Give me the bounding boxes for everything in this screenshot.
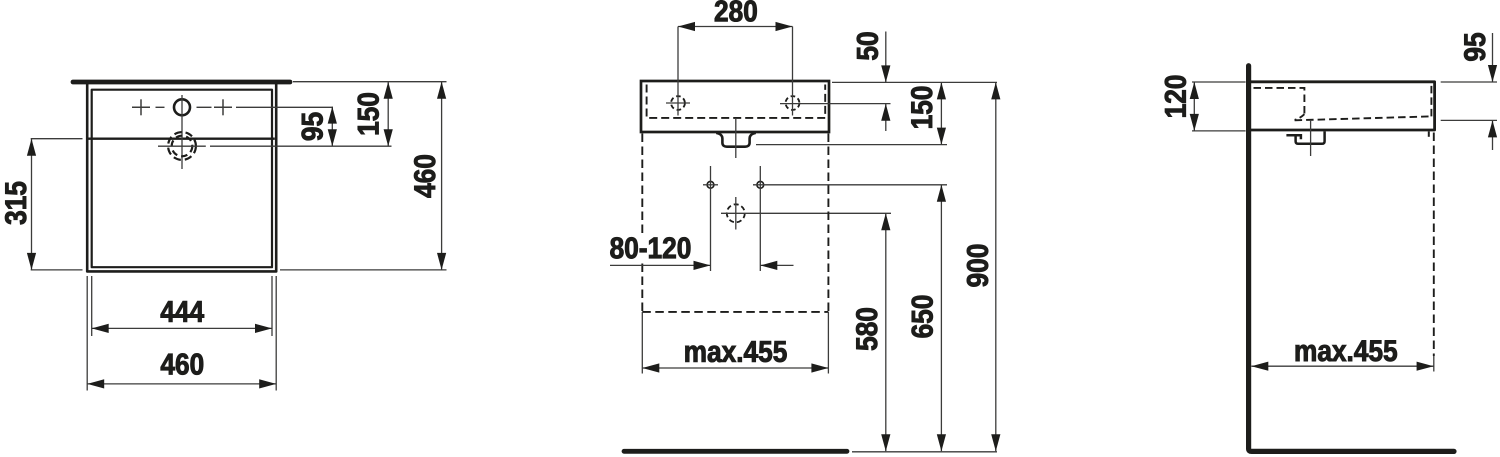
- dimension 150 front: bottom arrow: [937, 128, 946, 145]
- side view: waste outlet lip: [1286, 135, 1301, 139]
- dimension 80-120: label background: [608, 237, 694, 261]
- dimension 95 side: dimension line lower: [1492, 120, 1494, 150]
- dimension max.455 middle: right extension line: [827, 312, 829, 374]
- side view: front edge tick: [1428, 132, 1430, 137]
- front view: waste outlet centerline: [735, 119, 737, 158]
- dimension 120: label: [1165, 76, 1186, 117]
- dimension 95 side: down arrow: [1488, 65, 1497, 82]
- dimension max.455 middle: left extension line: [641, 312, 643, 374]
- dimension 460 vertical: dimension line: [441, 82, 443, 270]
- dimension 444: label: [161, 301, 204, 322]
- left view: drain horizontal centerline: [158, 145, 206, 147]
- dimension 315: top extension line: [31, 138, 83, 140]
- dimension 444: left extension line: [91, 276, 93, 336]
- dimension 150: top arrow: [384, 82, 393, 99]
- dimension 460 vertical: label: [414, 155, 435, 197]
- dimension 80-120: label: [610, 237, 690, 258]
- dimension 460 horizontal: right extension line: [275, 276, 277, 391]
- left view: drain inner dashed circle: [172, 136, 193, 157]
- dimension 315: top arrow: [27, 139, 36, 156]
- dimension 50: label: [857, 33, 878, 60]
- dimension 80-120: left leader line: [610, 264, 711, 266]
- dimension 95: bottom arrow: [328, 129, 337, 146]
- side view: inner bowl dashed rim: [1254, 88, 1305, 114]
- front view: left tap hole dashed circle: [671, 96, 685, 110]
- dimension 315: bottom extension line: [31, 269, 83, 271]
- dimension max.455 middle: right arrow: [811, 363, 828, 372]
- left view: basin inner outline: [92, 90, 272, 268]
- dimension 95 side: dimension line upper: [1492, 33, 1494, 82]
- dimension 120: bottom arrow: [1190, 114, 1199, 131]
- dimension 900: label: [967, 245, 988, 287]
- left view: drain axis extension to dims: [210, 145, 392, 147]
- dimension 444: right extension line: [271, 276, 273, 336]
- dimension max.455 middle: label: [685, 341, 786, 362]
- dimension 50: down arrow: [881, 65, 890, 82]
- front view: furniture zone dashed right: [827, 134, 829, 312]
- front view: right tap hole dashed circle: [786, 96, 800, 110]
- dimension 580: dimension line: [885, 213, 887, 451]
- dimension max.455 side: label: [1296, 340, 1397, 361]
- side view: inner bowl dashed front: [1430, 86, 1432, 117]
- dimension 50: up arrow: [881, 104, 890, 121]
- front view: right tap hole axis extension: [780, 103, 891, 105]
- dimension 95: label: [302, 113, 323, 141]
- front view: left tap hole centerline horizontal: [666, 102, 690, 104]
- dimension 280: left arrow: [678, 22, 695, 31]
- left view: alternative tap hole cross left: [132, 106, 150, 108]
- side view: front extension line solid: [1433, 356, 1435, 372]
- dimension 95 side: top extension line: [1441, 81, 1497, 83]
- dimension 580: top arrow: [881, 213, 890, 230]
- front view: right tap hole centerline vertical: [792, 27, 794, 116]
- dimension 315: label: [5, 182, 26, 225]
- left view: tap hole circle: [174, 99, 190, 115]
- front view: waste outlet bottom extension line: [756, 144, 947, 146]
- front view: drain dashed circle: [727, 204, 745, 222]
- dimension max.455 side: dimension line: [1251, 365, 1433, 367]
- dimension 460 vertical: bottom arrow: [437, 253, 446, 270]
- dimension 460 horizontal: left extension line: [86, 276, 88, 391]
- left view: drain outer dashed circle: [168, 132, 196, 160]
- side view: waste outlet cup: [1296, 131, 1325, 143]
- side view: wall and floor line (thick): [1249, 66, 1454, 452]
- dimension 460 horizontal: left arrow: [87, 379, 104, 388]
- dimension 580: label: [856, 308, 877, 350]
- side view: inner bowl dashed bottom: [1295, 116, 1432, 120]
- dimension 444: right arrow: [255, 324, 272, 333]
- dimension 120: top arrow: [1190, 82, 1199, 99]
- dimension 120: top extension line: [1192, 81, 1246, 83]
- dimension 95 side: label: [1464, 33, 1485, 61]
- dimension 444: dimension line: [92, 327, 272, 329]
- dimension 150 front: top arrow: [937, 82, 946, 99]
- front view: inner bowl hidden edge (dashed): [647, 85, 826, 118]
- front view: right fixing hole: [757, 181, 764, 188]
- front view: left fixing hole: [707, 181, 714, 188]
- dimension max.455 middle: left arrow: [642, 363, 659, 372]
- dimension 50: dimension line upper part: [885, 32, 887, 83]
- dimension 150: label: [358, 93, 379, 134]
- dimension 444: left arrow: [92, 324, 109, 333]
- dimension 280: right arrow: [776, 22, 793, 31]
- side view: inner bowl dashed overflow curve: [1295, 114, 1305, 120]
- dimension 900: bottom arrow: [991, 434, 1000, 451]
- left view: basin outer outline: [87, 84, 276, 271]
- dimension 460 horizontal: right arrow: [259, 379, 276, 388]
- dimension 280: label: [715, 0, 757, 21]
- dimension 150: dimension line: [387, 82, 389, 147]
- dimension 150 front: dimension line: [940, 82, 942, 144]
- dimension max.455 middle: dimension line: [642, 367, 828, 369]
- front view: floor extension line: [852, 451, 997, 453]
- side view: waste outlet centerline: [1310, 120, 1312, 156]
- dimension 460 vertical: top extension line: [293, 81, 447, 83]
- dimension 900: dimension line: [995, 82, 997, 451]
- dimension 95 side: up arrow: [1488, 120, 1497, 137]
- dimension 120: bottom extension line: [1192, 130, 1246, 132]
- front view: right fixing hole vertical line: [759, 166, 761, 271]
- dimension 460 horizontal: label: [161, 354, 203, 375]
- dimension 650: bottom arrow: [937, 434, 946, 451]
- front view: left tap hole centerline vertical: [677, 27, 679, 116]
- front view: drain vertical centerline: [735, 197, 737, 230]
- side view: basin profile outline: [1251, 82, 1435, 130]
- dimension 150 front: label: [911, 87, 932, 128]
- front view: furniture zone dashed bottom: [642, 311, 828, 313]
- dimension 95: top arrow: [328, 107, 337, 124]
- dimension 95 side: bottom extension line: [1441, 119, 1497, 121]
- dimension 650: top arrow: [937, 185, 946, 202]
- front view: basin outline: [641, 81, 829, 132]
- dimension 460 horizontal: dimension line: [87, 383, 276, 385]
- dimension 150: bottom arrow: [384, 129, 393, 146]
- left view: bowl back edge line: [89, 137, 275, 139]
- dimension 900: top arrow: [991, 82, 1000, 99]
- dimension 460 vertical: bottom extension line: [280, 269, 447, 271]
- dimension 580: bottom arrow: [881, 434, 890, 451]
- dimension 460 vertical: top arrow: [437, 82, 446, 99]
- left view: tap axis dash-dot segments: [156, 106, 165, 108]
- left view: vertical centerline through tap and drain: [181, 95, 183, 169]
- dimension 50: dimension line lower part: [885, 104, 887, 131]
- dimension 80-120: left arrow: [694, 261, 711, 270]
- dimension 80-120: right leader line: [760, 264, 793, 266]
- dimension 120: dimension line: [1193, 82, 1195, 131]
- left view: tap axis extension to 95 dim: [236, 106, 333, 108]
- left view: wall line (top, thick): [73, 80, 290, 85]
- dimension 315: dimension line: [31, 139, 33, 270]
- front view: floor line (thick): [624, 449, 847, 454]
- dimension 80-120: right arrow: [760, 261, 777, 270]
- dimension 650: label: [912, 296, 933, 338]
- front view: top edge extension line: [832, 81, 997, 83]
- front view: furniture zone dashed left: [641, 134, 643, 312]
- left view: alternative tap hole cross right: [214, 106, 232, 108]
- front view: left fixing hole horizontal tick: [703, 184, 718, 186]
- dimension max.455 side: right arrow: [1417, 362, 1434, 371]
- front view: waste outlet: [716, 133, 756, 147]
- dimension 280: dimension line: [678, 26, 793, 28]
- dimension 95: dimension line: [331, 107, 333, 147]
- front view: left fixing hole vertical line: [710, 166, 712, 271]
- dimension 650: dimension line: [940, 185, 942, 452]
- front view: fixing hole axis extension: [753, 184, 947, 186]
- side view: front lower dashed extension: [1433, 133, 1435, 357]
- dimension 315: bottom arrow: [27, 253, 36, 270]
- front view: drain horizontal centerline and extension: [721, 212, 891, 214]
- dimension max.455 side: left arrow: [1251, 362, 1268, 371]
